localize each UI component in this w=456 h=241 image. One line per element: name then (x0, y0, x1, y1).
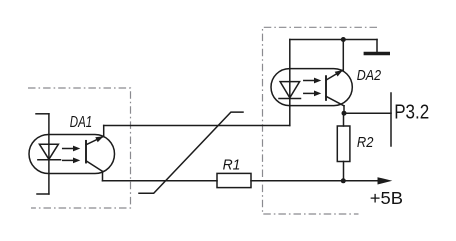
DA2 collector arrowhead (335, 70, 343, 77)
DA1 phototransistor base bar (85, 141, 87, 163)
DA1 coupling arrow lower (63, 159, 74, 161)
DA2 coupling arrow upper (304, 80, 315, 82)
DA2 LED vertical line through diode (289, 82, 291, 126)
svg-text:P3.2: P3.2 (394, 101, 429, 123)
DA2 collector riser (342, 40, 344, 71)
ground drop wire (376, 40, 378, 53)
port bar P3.2 (390, 93, 392, 146)
DA2 phototransistor base bar (325, 76, 327, 100)
wire top rail DA2 to ground (290, 39, 377, 41)
ground bar (365, 52, 388, 56)
+5V arrowhead (378, 177, 393, 184)
DA1 emitter line (86, 161, 103, 172)
dash-dot box left (MK1 boundary) (28, 88, 131, 208)
DA1 pin hook bottom (37, 193, 49, 195)
optocoupler DA2 body (271, 69, 352, 106)
DA2 emitter drop (343, 106, 345, 113)
DA1 LED triangle (39, 144, 58, 159)
wire to port P3.2 (344, 112, 391, 114)
DA2 collector line (326, 70, 343, 80)
DA1 pin hook top (36, 113, 49, 115)
resistor R1 (217, 173, 251, 187)
dash-dot box right (MK2 boundary) (263, 27, 378, 214)
optocoupler DA1 body (29, 135, 115, 174)
DA1 coupling arrow upper (63, 148, 74, 150)
line-break diagonal symbol (139, 112, 243, 193)
DA1 LED cathode bar (38, 159, 61, 161)
DA2 LED triangle (280, 82, 300, 98)
wire R2 to bottom rail (343, 162, 345, 181)
DA2 emitter line (326, 96, 344, 106)
svg-text:DA1: DA1 (70, 114, 92, 131)
DA1 emitter drop (102, 171, 104, 181)
DA1 collector line (86, 136, 104, 145)
DA1 collector riser (103, 126, 105, 137)
wire bottom rail DA1 to R1 (103, 180, 218, 182)
DA2 LED anode lead (289, 40, 291, 82)
svg-text:+5В: +5В (370, 188, 403, 208)
wire R1 to +5V node (251, 180, 379, 182)
DA2 coupling arrow lower (304, 92, 315, 94)
junction node emitter DA2 (342, 111, 347, 116)
wire emitter node to R2 (343, 113, 345, 126)
svg-text:R1: R1 (223, 157, 241, 174)
DA2 LED cathode bar (279, 98, 301, 100)
DA1 LED vertical line through diode (48, 144, 50, 194)
svg-text:DA2: DA2 (357, 67, 382, 84)
junction node bottom (341, 178, 346, 183)
DA1 collector arrowhead (95, 136, 103, 142)
DA1 LED anode lead (48, 114, 50, 144)
junction node top (341, 37, 346, 42)
wire top rail DA1 to DA2 (104, 125, 290, 127)
resistor R2 (337, 126, 350, 162)
svg-text:R2: R2 (357, 134, 374, 151)
